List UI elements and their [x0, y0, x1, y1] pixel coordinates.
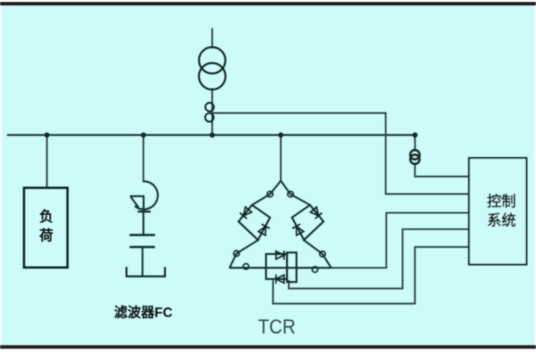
wire C thyristor box to control: [273, 247, 469, 304]
wire load drop: [46, 135, 48, 188]
coil bottom-leg right: [312, 267, 318, 273]
wire delta left leg lower: [230, 240, 258, 267]
thyristor left-leg lower: [258, 224, 270, 235]
svg-text:系统: 系统: [487, 212, 516, 230]
thyristor loop left leg: [239, 205, 271, 240]
wire delta bottom leg: [230, 267, 331, 269]
svg-text:荷: 荷: [38, 228, 53, 244]
junction node transformer: [210, 132, 215, 137]
wire CT tap to control: [213, 113, 469, 194]
junction node filter: [141, 132, 146, 137]
thyristor loop right leg: [292, 205, 324, 240]
wire filter drop: [142, 135, 144, 182]
svg-text:TCR: TCR: [258, 316, 296, 339]
transformer T1: [199, 47, 226, 90]
thyristor right-leg lower: [292, 224, 304, 235]
wire delta left leg upper: [252, 181, 281, 205]
wire PT upper: [414, 135, 416, 151]
coil bottom-leg left: [243, 264, 249, 270]
bottom frame bar: [0, 345, 536, 349]
control system box: [469, 158, 527, 265]
thyristor box bottom leg: [266, 254, 287, 279]
junction node load: [44, 132, 49, 137]
capacitor C (filter): [127, 235, 166, 276]
junction node TCR: [278, 132, 283, 137]
thyristor left-leg upper: [240, 207, 252, 219]
svg-text:负: 负: [39, 209, 53, 225]
wire PT to control: [415, 164, 469, 177]
voltage transformer PT: [410, 150, 419, 164]
wire B thyristor box to control: [289, 229, 469, 288]
coil right-leg bottom: [320, 251, 326, 257]
coil right-leg top: [288, 191, 294, 197]
thyristor box top device: [276, 251, 284, 260]
top frame bar: [0, 2, 536, 5]
thyristor box bottom device: [276, 274, 284, 283]
junction node PT: [412, 132, 417, 137]
thyristor right-leg upper: [310, 207, 322, 219]
svg-text:控制: 控制: [487, 193, 516, 211]
coil left-leg bottom: [234, 251, 240, 257]
coil left-leg top: [267, 191, 273, 197]
wire transformer to bus: [211, 89, 213, 135]
reactor L (filter): [130, 181, 158, 235]
wire A delta right vertex to control: [331, 213, 469, 268]
wire delta right leg upper: [281, 181, 310, 205]
wire delta drop: [280, 135, 282, 181]
load box: [24, 188, 68, 268]
svg-text:滤波器FC: 滤波器FC: [114, 304, 173, 320]
wire transformer top stub: [211, 29, 213, 48]
current transformer CT: [205, 103, 214, 122]
wire delta right leg lower: [304, 240, 331, 267]
bus: [8, 134, 417, 136]
